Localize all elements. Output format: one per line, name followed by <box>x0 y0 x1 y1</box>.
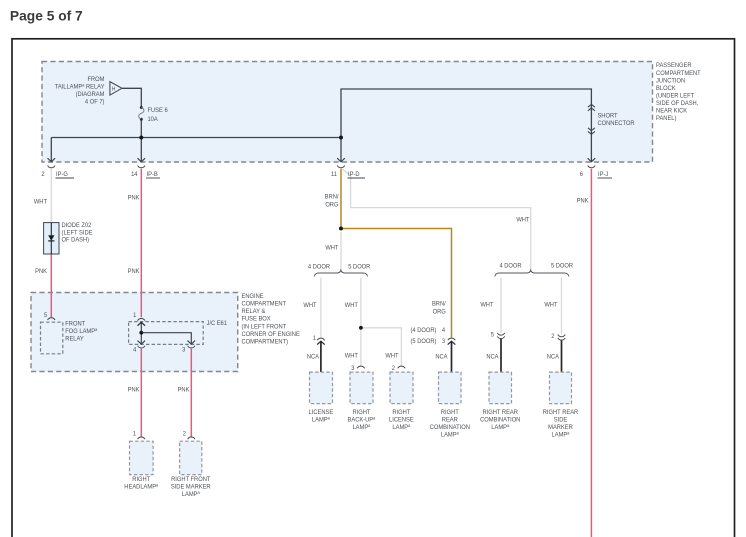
svg-text:IP-J: IP-J <box>598 170 608 178</box>
svg-text:FOG LAMPa: FOG LAMPa <box>65 327 98 335</box>
svg-text:WHT: WHT <box>385 352 398 360</box>
svg-text:10A: 10A <box>147 116 158 124</box>
svg-text:BACK-UPa: BACK-UPa <box>348 415 376 423</box>
svg-text:CORNER OF ENGINE: CORNER OF ENGINE <box>241 331 299 339</box>
svg-text:FUSE BOX: FUSE BOX <box>241 315 271 323</box>
svg-text:1: 1 <box>133 430 137 438</box>
svg-text:ORG: ORG <box>325 201 338 209</box>
svg-text:5 DOOR: 5 DOOR <box>551 262 574 270</box>
svg-text:Page 5 of 7: Page 5 of 7 <box>10 8 83 23</box>
svg-text:1: 1 <box>133 311 137 319</box>
svg-text:MARKER: MARKER <box>548 424 573 432</box>
svg-text:RIGHT: RIGHT <box>352 409 370 417</box>
svg-text:NCA: NCA <box>435 353 448 361</box>
svg-text:LAMPa: LAMPa <box>441 430 459 438</box>
svg-text:4 DOOR: 4 DOOR <box>499 262 522 270</box>
svg-text:LAMPa: LAMPa <box>392 423 410 431</box>
svg-text:3: 3 <box>351 364 355 372</box>
svg-text:WHT: WHT <box>345 352 358 360</box>
svg-text:(UNDER LEFT: (UNDER LEFT <box>656 92 694 100</box>
svg-text:IP-D: IP-D <box>348 170 360 178</box>
svg-text:BRN/: BRN/ <box>325 193 339 201</box>
svg-text:WHT: WHT <box>34 198 47 206</box>
svg-text:WHT: WHT <box>480 301 493 309</box>
svg-text:RELAY &: RELAY & <box>241 308 266 316</box>
svg-text:WHT: WHT <box>325 244 338 252</box>
svg-text:3: 3 <box>442 337 446 345</box>
svg-text:COMPARTMENT: COMPARTMENT <box>656 69 701 77</box>
svg-text:PNK: PNK <box>178 386 191 394</box>
svg-text:COMPARTMENT): COMPARTMENT) <box>241 338 288 346</box>
svg-text:PNK: PNK <box>128 268 141 276</box>
svg-text:RIGHT REAR: RIGHT REAR <box>482 409 518 417</box>
svg-text:CONNECTOR: CONNECTOR <box>597 120 634 128</box>
svg-text:NCA: NCA <box>307 353 320 361</box>
svg-text:4: 4 <box>442 327 446 335</box>
svg-text:FROM: FROM <box>87 75 104 83</box>
svg-text:PNK: PNK <box>128 386 141 394</box>
svg-text:COMBINATION: COMBINATION <box>430 424 471 432</box>
svg-text:PNK: PNK <box>35 268 48 276</box>
svg-text:PNK: PNK <box>577 197 590 205</box>
svg-text:NCA: NCA <box>486 353 499 361</box>
svg-text:RIGHT: RIGHT <box>392 409 410 417</box>
svg-text:4 OF 7): 4 OF 7) <box>85 98 105 106</box>
svg-text:LAMPa: LAMPa <box>352 423 370 431</box>
svg-text:IP-B: IP-B <box>147 170 158 178</box>
svg-text:WHT: WHT <box>303 302 316 310</box>
svg-text:J/C E61: J/C E61 <box>206 320 227 328</box>
svg-text:RIGHT FRONT: RIGHT FRONT <box>171 476 210 484</box>
svg-text:5 DOOR: 5 DOOR <box>348 263 371 271</box>
svg-text:COMPARTMENT: COMPARTMENT <box>241 300 286 308</box>
svg-text:LAMPa: LAMPa <box>182 490 200 498</box>
svg-text:IP-G: IP-G <box>56 170 68 178</box>
svg-text:COMBINATION: COMBINATION <box>480 416 521 424</box>
svg-text:H: H <box>112 86 116 92</box>
svg-text:BRN/: BRN/ <box>432 300 446 308</box>
svg-text:LAMPa: LAMPa <box>552 430 570 438</box>
svg-text:REAR: REAR <box>442 416 458 424</box>
svg-text:HEADLAMPa: HEADLAMPa <box>124 482 158 490</box>
svg-text:2: 2 <box>551 333 555 341</box>
svg-text:SIDE MARKER: SIDE MARKER <box>171 483 211 491</box>
svg-text:LAMPa: LAMPa <box>312 415 330 423</box>
svg-text:PASSENGER: PASSENGER <box>656 62 692 70</box>
svg-text:5: 5 <box>44 312 48 320</box>
svg-text:RIGHT: RIGHT <box>441 409 459 417</box>
svg-text:(DIAGRAM: (DIAGRAM <box>76 91 105 99</box>
svg-text:(IN LEFT FRONT: (IN LEFT FRONT <box>241 323 286 331</box>
svg-text:11: 11 <box>331 170 337 178</box>
svg-text:2: 2 <box>41 170 45 178</box>
svg-text:14: 14 <box>131 170 138 178</box>
svg-text:NCA: NCA <box>547 353 560 361</box>
svg-text:BLOCK: BLOCK <box>656 84 676 92</box>
svg-text:RELAY: RELAY <box>65 335 84 343</box>
svg-text:5: 5 <box>491 331 495 339</box>
svg-text:SIDE OF DASH,: SIDE OF DASH, <box>656 100 699 108</box>
svg-text:(4 DOOR): (4 DOOR) <box>411 327 437 335</box>
svg-text:SIDE: SIDE <box>554 416 567 424</box>
svg-text:RIGHT REAR: RIGHT REAR <box>543 409 579 417</box>
svg-text:6: 6 <box>580 170 584 178</box>
svg-text:FUSE 6: FUSE 6 <box>147 107 168 115</box>
svg-text:JUNCTION: JUNCTION <box>656 77 686 85</box>
svg-text:OF DASH): OF DASH) <box>62 236 90 244</box>
svg-text:4: 4 <box>133 346 137 354</box>
svg-text:1: 1 <box>313 335 317 343</box>
svg-text:FRONT: FRONT <box>65 320 85 328</box>
svg-text:WHT: WHT <box>544 301 557 309</box>
svg-text:WHT: WHT <box>345 302 358 310</box>
svg-text:ORG: ORG <box>433 308 446 316</box>
svg-text:(5 DOOR): (5 DOOR) <box>411 337 437 345</box>
svg-text:RIGHT: RIGHT <box>132 476 150 484</box>
svg-text:2: 2 <box>392 364 396 372</box>
svg-text:ENGINE: ENGINE <box>241 292 263 300</box>
svg-text:LAMPa: LAMPa <box>491 423 509 431</box>
svg-text:SHORT: SHORT <box>597 112 617 120</box>
svg-text:WHT: WHT <box>516 216 529 224</box>
svg-text:NEAR KICK: NEAR KICK <box>656 107 688 115</box>
svg-text:PANEL): PANEL) <box>656 115 676 123</box>
svg-text:4 DOOR: 4 DOOR <box>308 263 331 271</box>
svg-text:3: 3 <box>182 346 186 354</box>
svg-text:PNK: PNK <box>128 194 141 202</box>
svg-text:TAILLAMPa RELAY: TAILLAMPa RELAY <box>55 82 105 90</box>
svg-text:2: 2 <box>183 430 187 438</box>
